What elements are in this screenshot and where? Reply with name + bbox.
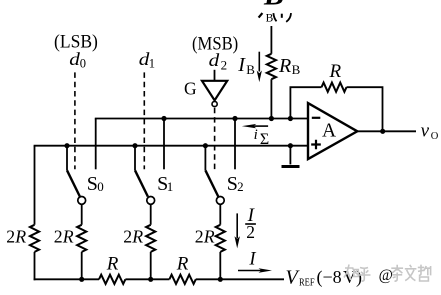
svg-text:A: A (322, 120, 336, 141)
wire: VB supply down to RB (270, 26, 272, 54)
switch S0 pivot circle (78, 197, 86, 205)
inverter G bubble (212, 101, 217, 106)
svg-text:B: B (292, 62, 301, 77)
wire: bottom rail to VREF (34, 278, 284, 280)
watermark zhihu at liwenzhe (344, 265, 371, 282)
clipped label VB: plus sign lower stroke (281, 14, 283, 18)
svg-text:0: 0 (97, 179, 104, 194)
wire: RB to summing rail (270, 79, 272, 118)
node bottom rail branch 2 (148, 277, 153, 282)
svg-text:I: I (237, 54, 246, 76)
svg-text:2: 2 (221, 58, 228, 73)
svg-text:B: B (263, 0, 284, 12)
svg-text:1: 1 (149, 57, 155, 71)
switch S2 ground contact stub (204, 146, 206, 171)
wire: branch 3 below switch (219, 204, 221, 279)
svg-text:R: R (176, 254, 189, 275)
node output feedback (380, 129, 385, 134)
svg-text:0: 0 (80, 57, 86, 71)
svg-text:v: v (421, 121, 430, 142)
resistor 2R branch 1 (77, 225, 86, 252)
svg-text:S: S (87, 173, 98, 195)
switch S0 summing contact stub (95, 119, 97, 170)
svg-text:B: B (266, 12, 274, 24)
svg-text:2R: 2R (123, 227, 143, 247)
wire: ground rail to op-amp noninverting input (34, 145, 308, 147)
switch S1 summing contact stub (163, 119, 165, 170)
switch S0 arm (67, 170, 80, 196)
svg-text:@: @ (379, 267, 393, 284)
ground symbol (282, 165, 300, 168)
svg-text:I: I (248, 250, 256, 270)
node summing rail S1 contact (161, 116, 166, 121)
node bottom rail branch 1 (79, 277, 84, 282)
wire: left vertical branch (34, 146, 36, 281)
clipped label VB: lower half of open paren (273, 13, 276, 21)
inverter G triangle (202, 81, 227, 101)
resistor 2R branch 2 (146, 225, 155, 252)
svg-text:i: i (254, 127, 258, 143)
svg-text:2R: 2R (6, 227, 26, 247)
wire: branch 2 below switch (150, 204, 152, 279)
wire: ground stub from noninverting rail (289, 146, 291, 165)
node ground rail S1 (132, 143, 137, 148)
node bottom rail branch 3 (218, 277, 223, 282)
wire: d2 stub into inverter (214, 70, 216, 81)
node summing rail S2 contact (232, 116, 237, 121)
op-amp minus sign (312, 117, 321, 119)
node summing rail RB (269, 116, 274, 121)
resistor R bottom left (99, 275, 125, 284)
op-amp plus sign (311, 140, 321, 150)
wire: feedback loop (290, 87, 382, 131)
switch S2 pivot circle (216, 197, 224, 205)
clipped label VB: bottom tip of italic V (259, 13, 263, 18)
svg-text:2R: 2R (54, 227, 74, 247)
wire: op-amp output (357, 130, 416, 132)
svg-text:B: B (246, 62, 255, 77)
clipped label VB: lower half of close paren (286, 13, 291, 22)
current arrow I/2 (236, 213, 238, 238)
svg-text:V): V) (343, 267, 362, 288)
switch S1 ground contact stub (134, 146, 136, 171)
svg-text:2: 2 (246, 222, 255, 242)
dashed control line d2 below inverter (214, 108, 216, 170)
resistor RB vertical (267, 54, 276, 79)
svg-text:(−8: (−8 (317, 267, 342, 288)
svg-text:d: d (209, 50, 221, 70)
wire: branch 1 below switch (81, 204, 83, 279)
op-amp A triangle (308, 103, 357, 159)
switch S2 arm (205, 170, 218, 196)
svg-text:2R: 2R (195, 227, 215, 247)
resistor 2R branch 3 (216, 225, 225, 252)
wire: summing rail to op-amp inverting input (95, 118, 308, 120)
node ground rail S2 (203, 143, 208, 148)
dashed control line d0 (74, 72, 76, 169)
resistor 2R leftmost (30, 225, 39, 252)
resistor R feedback (322, 83, 347, 92)
current arrow IB (258, 52, 260, 72)
node ground rail ground stub (288, 143, 293, 148)
dashed control line d1 (143, 72, 145, 169)
node summing rail feedback (288, 116, 293, 121)
svg-text:R: R (278, 55, 291, 77)
svg-text:2: 2 (237, 179, 244, 194)
svg-text:G: G (184, 79, 197, 99)
svg-text:1: 1 (167, 179, 174, 194)
resistor R bottom right (169, 275, 195, 284)
svg-text:R: R (329, 61, 342, 82)
switch S2 summing contact stub (234, 119, 236, 170)
switch S1 arm (135, 170, 148, 196)
svg-text:O: O (431, 131, 439, 142)
switch S0 ground contact stub (66, 146, 68, 171)
svg-text:REF: REF (299, 277, 315, 289)
switch S1 pivot circle (147, 197, 155, 205)
svg-text:Σ: Σ (260, 131, 269, 148)
svg-text:R: R (106, 254, 119, 275)
node ground rail S0 (64, 143, 69, 148)
current arrow i-sigma (253, 125, 269, 127)
